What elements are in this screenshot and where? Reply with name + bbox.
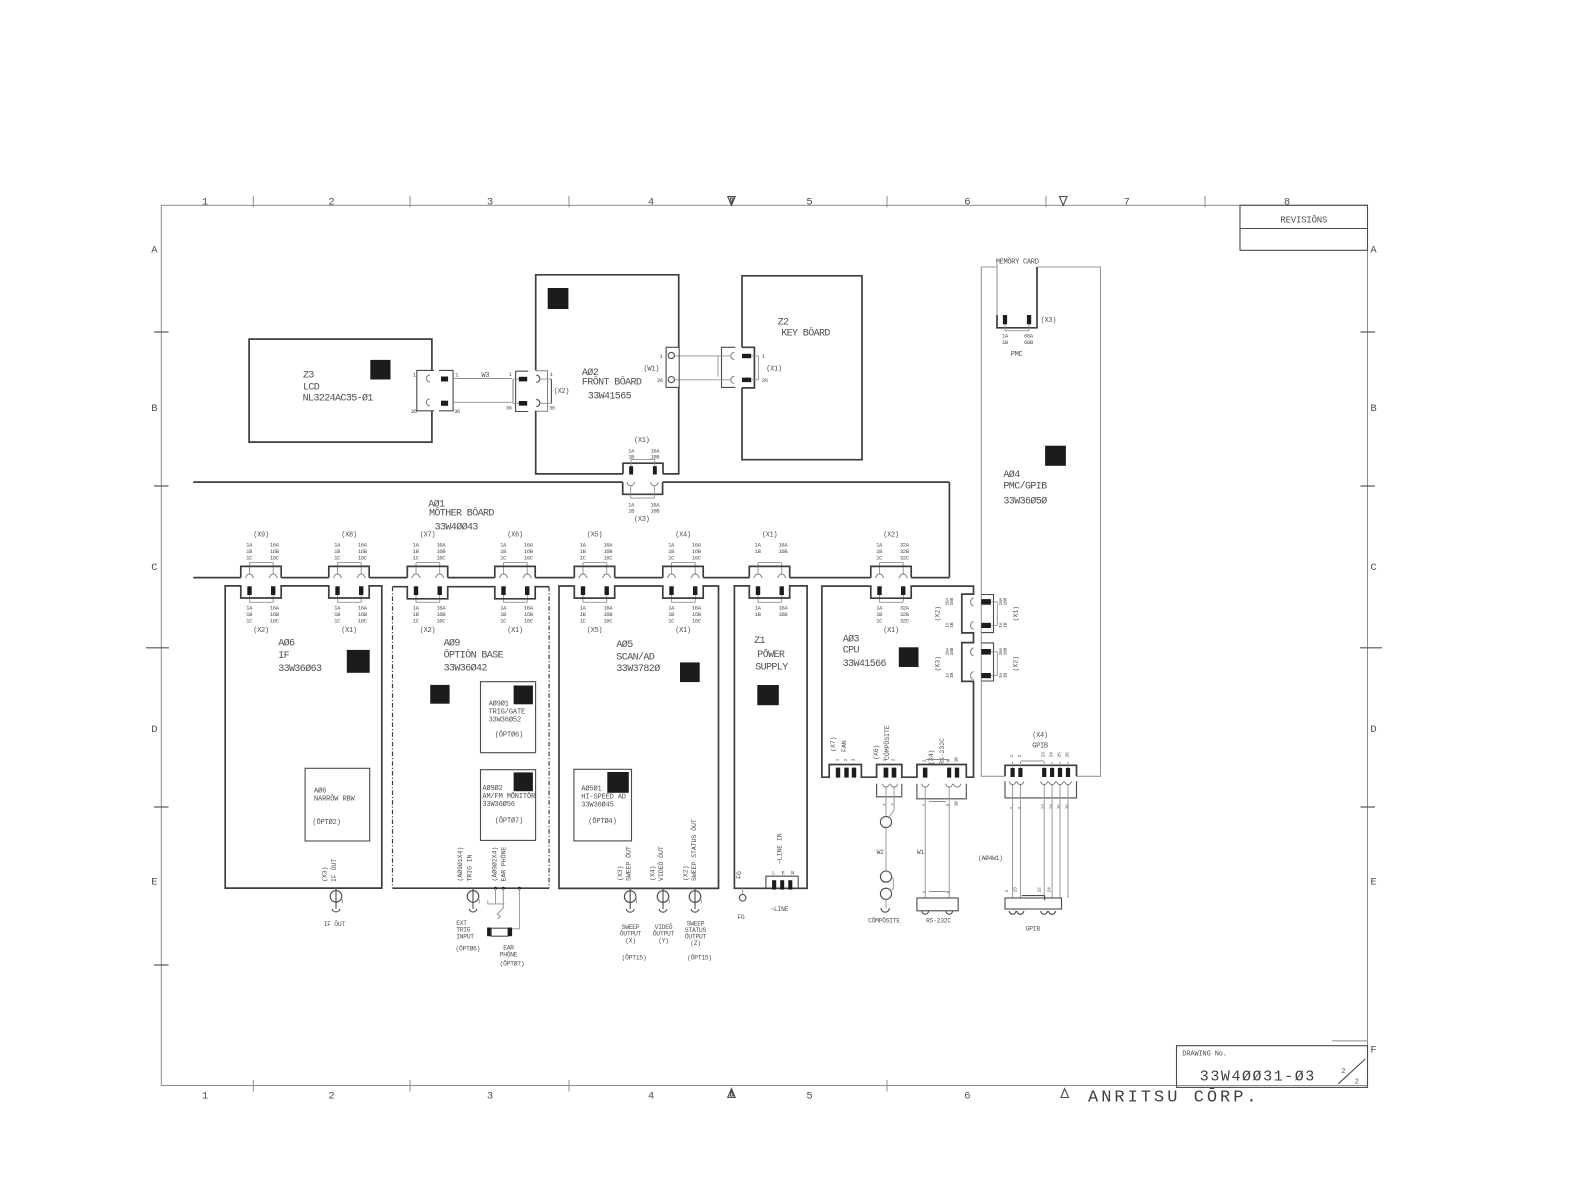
svg-text:EAR PHŌNE: EAR PHŌNE — [500, 847, 508, 882]
svg-text:PHŌNE: PHŌNE — [500, 951, 518, 959]
right row tick at F boundary — [1332, 1040, 1368, 1042]
cable W3 connector male to front board — [516, 371, 529, 411]
connector X2 on A03 CPU right edge female — [971, 598, 974, 606]
sub-board A0501 HI-SPEED AD option box — [574, 769, 632, 841]
svg-text:TRIG IN: TRIG IN — [467, 854, 474, 881]
connector X1 recess on Z2 left edge — [742, 347, 754, 388]
svg-text:16C: 16C — [524, 554, 534, 561]
svg-text:(X1): (X1) — [1012, 606, 1019, 621]
svg-text:12: 12 — [1037, 887, 1043, 892]
svg-text:1Ø: 1Ø — [952, 801, 959, 806]
svg-text:2: 2 — [1355, 1079, 1359, 1087]
svg-text:EAR: EAR — [503, 945, 514, 952]
cable W3 connector male to LCD — [439, 370, 453, 410]
svg-text:F: F — [1370, 1045, 1376, 1057]
connector X1 notch bump on mother board edge — [749, 566, 789, 577]
svg-text:AØ5: AØ5 — [616, 639, 633, 651]
svg-text:6: 6 — [964, 196, 970, 208]
svg-text:25: 25 — [1056, 804, 1062, 809]
svg-text:ANRITSU CŌRP.: ANRITSU CŌRP. — [1088, 1088, 1260, 1108]
connector X6 notch bump on mother board edge — [495, 566, 535, 577]
ear phone jack wiring — [494, 887, 497, 890]
svg-text:AØ3: AØ3 — [843, 634, 860, 646]
svg-text:(X7): (X7) — [420, 532, 436, 540]
connector X9 notch bump on mother board edge — [241, 566, 281, 577]
svg-text:3: 3 — [487, 1091, 493, 1103]
svg-text:N: N — [791, 870, 794, 877]
memory card slot — [996, 264, 998, 316]
connector X2 notch bump on mother board edge — [871, 566, 911, 577]
svg-text:16C: 16C — [270, 554, 280, 561]
svg-text:3: 3 — [487, 196, 493, 208]
sub-board A0902 AM/FM MONITOR option box — [481, 770, 536, 841]
connector X3 on A03 CPU right edge female — [971, 648, 974, 656]
svg-text:GPIB: GPIB — [1032, 743, 1048, 751]
svg-text:(X3): (X3) — [1041, 317, 1057, 325]
svg-text:33W4ØØ43: 33W4ØØ43 — [435, 522, 479, 534]
svg-text:(X4): (X4) — [650, 866, 657, 881]
IC block on A03 CPU — [899, 647, 919, 667]
board A02 FRONT BOARD outline — [536, 275, 679, 371]
svg-text:16B: 16B — [1003, 598, 1009, 606]
ear phone jack body — [487, 928, 491, 937]
svg-text:CŌMPŌSITE: CŌMPŌSITE — [868, 917, 900, 925]
connector X3 memory card socket — [997, 315, 1037, 328]
connector on Z3 LCD right edge female — [417, 370, 434, 410]
connector X2 daughter board side at x=261 — [247, 586, 251, 595]
connector X3 IF OUT coax — [335, 888, 337, 909]
external COMPOSITE plug — [881, 908, 889, 912]
svg-text:W2: W2 — [877, 849, 885, 856]
revision triangle bottom marked — [728, 1089, 736, 1098]
svg-text:(AØ9Ø1X4): (AØ9Ø1X4) — [456, 847, 464, 882]
svg-text:IF ŌUT: IF ŌUT — [324, 920, 346, 928]
svg-text:(X3): (X3) — [322, 867, 329, 882]
svg-text:5: 5 — [806, 196, 812, 208]
svg-text:HI-SPEED AD: HI-SPEED AD — [581, 794, 626, 802]
svg-text:(X1): (X1) — [341, 627, 357, 635]
svg-text:C: C — [1370, 562, 1376, 574]
svg-text:23: 23 — [1041, 752, 1047, 757]
svg-text:AØ9Ø1: AØ9Ø1 — [489, 700, 509, 709]
svg-text:SWEEP ŌUT: SWEEP ŌUT — [624, 846, 632, 881]
connector X1 daughter board side at x=515 — [501, 586, 505, 595]
cable W1 connector female to Z2 — [722, 347, 736, 387]
svg-text:AØ6: AØ6 — [278, 638, 295, 650]
connector X5 daughter board side at x=594 — [581, 586, 585, 595]
svg-text:RS-232C: RS-232C — [926, 918, 951, 925]
svg-text:1Ø: 1Ø — [952, 757, 959, 762]
svg-text:MŌTHER BŌARD: MŌTHER BŌARD — [429, 507, 494, 520]
revision triangle top filled — [728, 197, 736, 206]
svg-text:23: 23 — [1041, 804, 1047, 809]
svg-text:16C: 16C — [436, 618, 446, 625]
connector X1 daughter board side at x=891 — [877, 586, 881, 595]
svg-text:1: 1 — [202, 1091, 208, 1103]
revision triangle top open — [1060, 197, 1068, 206]
board Z1 POWER SUPPLY outline — [734, 586, 807, 888]
svg-text:33W41566: 33W41566 — [843, 659, 887, 670]
svg-text:FAN: FAN — [841, 740, 848, 752]
svg-text:C: C — [151, 562, 157, 574]
svg-text:16C: 16C — [692, 554, 702, 561]
svg-text:1B: 1B — [949, 622, 955, 627]
board A06 IF outline — [225, 586, 382, 888]
svg-text:26: 26 — [762, 377, 768, 384]
svg-text:SWEEP STATUS ŌUT: SWEEP STATUS ŌUT — [690, 819, 698, 881]
connector X1 daughter board side at x=683 — [669, 586, 673, 595]
connector X8 notch bump on mother board edge — [329, 566, 369, 577]
svg-text:24: 24 — [1047, 887, 1053, 892]
svg-text:36: 36 — [549, 405, 555, 412]
svg-text:PMC/GPIB: PMC/GPIB — [1003, 481, 1047, 493]
svg-text:16C: 16C — [358, 554, 368, 561]
svg-text:~LINE IN: ~LINE IN — [776, 833, 783, 864]
svg-text:FRŌNT BŌARD: FRŌNT BŌARD — [582, 376, 642, 389]
cable W3 tie bar at front board side — [512, 379, 514, 403]
connector X6 COMPOSITE pins — [884, 768, 889, 778]
svg-text:16C: 16C — [436, 554, 446, 561]
svg-text:D: D — [1370, 724, 1376, 736]
board Z2 KEY BOARD outline — [742, 276, 862, 460]
svg-text:~LINE: ~LINE — [771, 906, 789, 913]
svg-text:AØ9: AØ9 — [444, 638, 461, 650]
svg-text:16B: 16B — [778, 611, 788, 618]
svg-text:16B: 16B — [650, 508, 660, 515]
board A01 MOTHER BOARD right edge — [948, 482, 950, 577]
sub-board A0901 TRIG/GATE option box — [481, 682, 536, 753]
svg-text:Z1: Z1 — [754, 636, 765, 647]
IC block on A05 SCAN/AD — [680, 662, 700, 682]
svg-text:(AØ9Ø2X4): (AØ9Ø2X4) — [490, 847, 498, 882]
svg-text:33W4ØØ31-Ø3: 33W4ØØ31-Ø3 — [1200, 1069, 1316, 1086]
svg-text:(ŌPTØ7): (ŌPTØ7) — [495, 817, 523, 826]
svg-text:2: 2 — [328, 1091, 334, 1103]
svg-text:NARRŌW RBW: NARRŌW RBW — [314, 795, 355, 804]
svg-text:16B: 16B — [949, 598, 955, 606]
svg-text:33W36Ø63: 33W36Ø63 — [278, 663, 322, 675]
connector X1 on A04 PMC/GPIB left edge male — [981, 595, 993, 633]
svg-text:E: E — [1370, 877, 1376, 889]
svg-text:(X2): (X2) — [883, 532, 899, 540]
external RS-232C connector — [917, 898, 958, 911]
IC block on A0501 — [607, 772, 629, 793]
bottom column ticks — [252, 1080, 254, 1092]
cable A04W1 connector female below GPIB — [1005, 781, 1077, 798]
svg-text:IF ŌUT: IF ŌUT — [330, 859, 338, 882]
svg-text:(X1): (X1) — [766, 366, 782, 374]
svg-text:5: 5 — [806, 1091, 812, 1103]
svg-text:(ŌPTØ6): (ŌPTØ6) — [495, 731, 523, 740]
svg-text:24: 24 — [1049, 752, 1055, 757]
svg-text:(X4): (X4) — [675, 532, 691, 540]
svg-text:7: 7 — [1124, 196, 1130, 208]
svg-text:16B: 16B — [1003, 648, 1009, 656]
svg-text:(X6): (X6) — [873, 745, 880, 760]
svg-text:33W36Ø45: 33W36Ø45 — [581, 801, 613, 810]
sheet number 2/2 — [1338, 1059, 1365, 1084]
svg-text:(X8): (X8) — [341, 532, 357, 540]
svg-text:SUPPLY: SUPPLY — [755, 663, 788, 674]
svg-text:4: 4 — [648, 196, 654, 208]
svg-text:LCD: LCD — [303, 383, 320, 394]
cable W2 wires and beads — [885, 787, 887, 816]
svg-text:8: 8 — [1284, 196, 1290, 208]
left center fold tick — [146, 647, 169, 649]
connector X7 notch bump on mother board edge — [407, 566, 447, 577]
FG terminal — [742, 888, 744, 894]
svg-text:AØ4: AØ4 — [1003, 469, 1020, 481]
connector X7 FAN pins — [836, 768, 840, 778]
svg-text:TRIG/GATE: TRIG/GATE — [489, 709, 525, 717]
svg-text:33W36Ø5Ø: 33W36Ø5Ø — [1003, 496, 1047, 508]
board A04 PMC/GPIB outline — [981, 267, 1005, 776]
svg-text:MEMŌRY CARD: MEMŌRY CARD — [996, 258, 1039, 267]
svg-text:B: B — [1370, 403, 1376, 415]
svg-text:(X1): (X1) — [507, 627, 523, 635]
svg-text:FG: FG — [736, 871, 743, 879]
connector X5 notch bump on mother board edge — [574, 566, 614, 577]
svg-text:D: D — [151, 724, 157, 736]
external GPIB connector — [1005, 898, 1062, 909]
svg-text:4: 4 — [648, 1091, 654, 1103]
IC block on A06 IF — [347, 650, 370, 673]
svg-text:16C: 16C — [692, 618, 702, 625]
svg-text:(X3): (X3) — [617, 866, 624, 881]
svg-text:33W3782Ø: 33W3782Ø — [616, 663, 660, 675]
cable W1 marker — [717, 356, 719, 376]
svg-text:68B: 68B — [1024, 339, 1034, 346]
svg-text:(X2): (X2) — [420, 627, 436, 635]
IC block on A09 OPTION BASE — [430, 685, 449, 704]
svg-text:16B: 16B — [778, 548, 788, 555]
svg-text:2: 2 — [328, 196, 334, 208]
svg-text:Z3: Z3 — [303, 371, 314, 382]
notch for connector X1 on front board bottom — [623, 463, 663, 474]
svg-text:B: B — [151, 403, 157, 415]
connector X2 daughter board side at x=428 — [414, 586, 418, 595]
connector SWEEP OUTPUT X coax — [629, 888, 631, 909]
svg-text:W1: W1 — [917, 849, 925, 856]
svg-text:(X9): (X9) — [253, 532, 269, 540]
svg-text:CPU: CPU — [843, 646, 860, 657]
svg-text:CŌMPŌSITE: CŌMPŌSITE — [883, 725, 891, 760]
right row ticks — [1361, 331, 1376, 333]
svg-text:(X): (X) — [625, 937, 636, 944]
svg-text:(X1): (X1) — [634, 437, 650, 445]
svg-text:W3: W3 — [481, 372, 489, 380]
IC block on Z3 LCD — [370, 360, 390, 380]
svg-text:36: 36 — [454, 408, 460, 415]
left row ticks — [154, 331, 169, 333]
IC block on A0901 — [514, 686, 533, 705]
svg-text:32C: 32C — [900, 554, 910, 561]
svg-text:L: L — [772, 870, 775, 877]
IC block on Z1 POWER SUPPLY — [757, 685, 779, 705]
svg-text:Z2: Z2 — [778, 318, 789, 329]
connector X4 RS-232C pins — [923, 768, 928, 778]
svg-text:(ŌPTØ7): (ŌPTØ7) — [500, 960, 525, 968]
svg-text:(X7): (X7) — [830, 737, 837, 752]
top column ticks — [252, 196, 254, 207]
svg-text:33W41565: 33W41565 — [588, 392, 632, 403]
svg-text:(X4): (X4) — [928, 750, 935, 765]
svg-text:25: 25 — [1056, 752, 1062, 757]
svg-text:26: 26 — [657, 377, 663, 384]
svg-text:16C: 16C — [603, 554, 613, 561]
svg-text:24: 24 — [1049, 804, 1055, 809]
svg-text:(X1): (X1) — [883, 627, 899, 635]
svg-text:(AØ4W1): (AØ4W1) — [978, 854, 1003, 862]
connector VIDEO OUTPUT Y coax — [662, 888, 664, 909]
svg-text:2: 2 — [1341, 1068, 1345, 1076]
connector X1 male pins on Z2 KEY BOARD — [742, 354, 751, 358]
svg-text:32C: 32C — [900, 618, 910, 625]
svg-text:1: 1 — [202, 196, 208, 208]
connector male pins daughter board side at x=770 — [756, 586, 760, 595]
svg-text:(X5): (X5) — [587, 532, 603, 540]
IC block on A0902 — [514, 772, 533, 791]
svg-text:(X4): (X4) — [1032, 732, 1048, 740]
svg-text:PMC: PMC — [1011, 351, 1023, 359]
svg-text:(ŌPT15): (ŌPT15) — [687, 954, 712, 962]
svg-text:NL3224AC35-Ø1: NL3224AC35-Ø1 — [303, 393, 374, 405]
connector X2 recess on front board left edge female — [536, 371, 548, 411]
border frame — [161, 205, 1367, 1085]
svg-text:GPIB: GPIB — [1026, 926, 1041, 933]
svg-text:(X5): (X5) — [587, 627, 603, 635]
board A09 OPTION BASE outline dashed sides — [393, 587, 550, 599]
board A01 MOTHER BOARD top edge with X3 notch — [193, 481, 623, 483]
svg-text:16C: 16C — [603, 618, 613, 625]
svg-text:A: A — [151, 245, 158, 257]
cable W1 wires to RS-232C — [924, 787, 926, 898]
svg-text:33W36Ø52: 33W36Ø52 — [489, 716, 521, 725]
board A03 CPU outline — [822, 586, 974, 777]
svg-text:A: A — [1370, 245, 1377, 257]
svg-text:(ŌPTØ4): (ŌPTØ4) — [588, 817, 616, 826]
board Z3 LCD outline — [249, 339, 432, 442]
svg-text:AM/FM MŌNITŌR: AM/FM MŌNITŌR — [482, 792, 536, 801]
svg-text:26: 26 — [1064, 804, 1070, 809]
Z1 line input connector L E N — [766, 876, 798, 888]
cable W1 connector female below RS-232C — [917, 784, 966, 799]
svg-text:E: E — [151, 877, 157, 889]
svg-text:33W36Ø42: 33W36Ø42 — [444, 663, 488, 675]
svg-text:AØ5Ø1: AØ5Ø1 — [581, 785, 601, 794]
svg-text:(Z): (Z) — [690, 940, 701, 947]
svg-text:(X2): (X2) — [683, 866, 690, 881]
svg-text:16C: 16C — [270, 618, 280, 625]
svg-text:AØ9Ø2: AØ9Ø2 — [482, 784, 502, 793]
svg-text:(ŌPTØ6): (ŌPTØ6) — [456, 945, 481, 953]
svg-text:FG: FG — [737, 914, 745, 921]
svg-text:(X3): (X3) — [634, 516, 650, 524]
svg-text:VIDEŌ ŌUT: VIDEŌ ŌUT — [657, 846, 665, 881]
svg-text:1B: 1B — [1003, 622, 1009, 627]
connector W1 header on front board right edge — [666, 347, 679, 387]
IC block on A04 PMC/GPIB — [1045, 446, 1066, 466]
svg-text:(X1): (X1) — [675, 627, 691, 635]
svg-text:(X2): (X2) — [554, 388, 570, 396]
svg-text:36: 36 — [506, 405, 512, 412]
svg-text:1B: 1B — [1003, 673, 1009, 678]
connector X1 daughter board side at x=349 — [335, 586, 339, 595]
right center fold tick — [1360, 647, 1382, 649]
svg-text:16C: 16C — [358, 618, 368, 625]
svg-text:6: 6 — [964, 1091, 970, 1103]
cable W3 wires — [453, 378, 512, 380]
svg-text:REVISIŌNS: REVISIŌNS — [1280, 215, 1327, 226]
svg-text:ŌPTIŌN BASE: ŌPTIŌN BASE — [444, 649, 504, 662]
connector X4 notch bump on mother board edge — [663, 566, 703, 577]
svg-text:33W36Ø56: 33W36Ø56 — [482, 800, 514, 809]
connector EXT TRIG INPUT coax — [472, 888, 474, 909]
svg-text:(X1): (X1) — [762, 532, 778, 540]
svg-text:1B: 1B — [949, 673, 955, 678]
revision triangle bottom open — [1061, 1089, 1069, 1098]
svg-text:(X2): (X2) — [253, 627, 269, 635]
cable W1 wires to front board — [674, 355, 730, 357]
svg-text:(Y): (Y) — [658, 937, 669, 944]
title block — [1177, 1046, 1368, 1088]
IC block on A02 FRONT BOARD — [548, 288, 569, 309]
svg-text:(X6): (X6) — [507, 532, 523, 540]
svg-text:26: 26 — [1064, 752, 1070, 757]
svg-text:(ŌPTØ2): (ŌPTØ2) — [312, 818, 340, 827]
svg-text:(ŌPT15): (ŌPT15) — [622, 954, 647, 962]
svg-text:(X2): (X2) — [1012, 656, 1019, 671]
svg-text:16C: 16C — [524, 618, 534, 625]
cable A04W1 wires — [1012, 785, 1014, 898]
svg-text:(X2): (X2) — [934, 606, 941, 621]
svg-text:INPUT: INPUT — [456, 933, 474, 940]
svg-text:36: 36 — [411, 408, 417, 415]
svg-text:13: 13 — [1012, 887, 1018, 892]
board A01 MOTHER BOARD bottom bus edge with connector bumps — [193, 577, 949, 579]
revisions box — [1240, 205, 1368, 250]
svg-text:KEY BŌARD: KEY BŌARD — [781, 327, 830, 340]
svg-text:SCAN/AD: SCAN/AD — [616, 652, 654, 664]
connector SWEEP STATUS OUTPUT Z coax — [694, 888, 696, 909]
sub-board A06 NARROW RBW option box — [305, 768, 370, 841]
svg-text:(X3): (X3) — [934, 656, 941, 671]
cable W2 connector female below COMPOSITE — [877, 784, 902, 797]
connector X2 on A04 PMC/GPIB left edge male — [981, 643, 993, 681]
svg-text:16B: 16B — [949, 648, 955, 656]
connector X3 on mother board top edge female cups — [623, 482, 663, 494]
svg-text:DRAWING No.: DRAWING No. — [1182, 1051, 1227, 1059]
svg-text:IF: IF — [278, 651, 289, 662]
svg-text:PŌWER: PŌWER — [757, 648, 785, 661]
svg-text:(W1): (W1) — [644, 366, 660, 374]
svg-text:AØ6: AØ6 — [314, 787, 326, 796]
svg-text:RS-232C: RS-232C — [939, 738, 946, 765]
board A05 SCAN/AD outline — [559, 586, 719, 888]
